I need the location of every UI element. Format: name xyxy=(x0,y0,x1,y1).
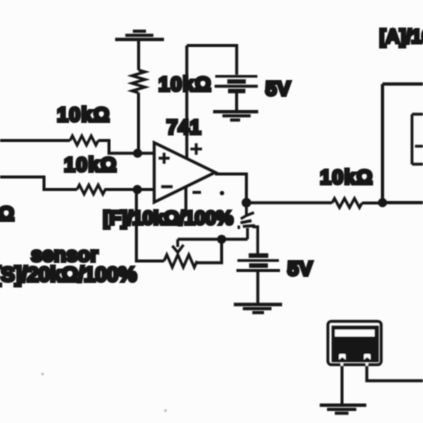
svg-text:10kΩ: 10kΩ xyxy=(159,74,212,96)
op-amp V- pin label xyxy=(193,191,202,194)
op-amp V+ pin wire xyxy=(185,46,188,159)
resistor R4 (vertical, to +input node) xyxy=(132,70,145,93)
meter M2 body xyxy=(328,321,381,364)
op-amp V+ pin label xyxy=(190,143,202,155)
resistor R2 xyxy=(77,185,105,194)
wire node E rail to arrow xyxy=(246,228,249,239)
wire V+ rail to battery B1 xyxy=(187,46,237,75)
svg-text:741: 741 xyxy=(167,117,202,139)
wire R1 to node A xyxy=(98,141,138,154)
wire node D to right edge (meter bottom) xyxy=(383,201,423,204)
op-amp U1 +input marker xyxy=(159,153,170,164)
meter M2 pin gap right xyxy=(366,363,369,366)
svg-text:5V: 5V xyxy=(288,259,314,281)
svg-text:[A]/10: [A]/10 xyxy=(380,27,423,48)
svg-text:5V: 5V xyxy=(266,79,292,101)
wire input 1 (from left edge) xyxy=(0,139,70,142)
node B junction dot xyxy=(133,185,142,194)
wiper track bar lower xyxy=(243,224,255,228)
wire M2 left terminal to GND4 xyxy=(341,366,344,404)
wire R3 to node D xyxy=(362,202,383,205)
wire R2 to node B xyxy=(104,188,137,191)
meter M2 pin gap left xyxy=(341,363,344,366)
output wire node C to R3 xyxy=(246,201,332,204)
resistor R3 xyxy=(332,198,362,207)
wire node B to op-amp -in xyxy=(137,188,154,191)
wire GND1 to R4 xyxy=(137,41,140,71)
meter M2 display strip xyxy=(335,330,375,337)
ground GND1 (top, inverted) xyxy=(115,31,164,39)
meter M2 left terminal mark xyxy=(339,354,346,360)
node D junction dot xyxy=(378,198,387,207)
ground GND3 (under B2) xyxy=(234,305,282,313)
feedback wire node B down to pot xyxy=(136,190,164,262)
resistor R1 xyxy=(70,136,98,145)
meter M2 dark face xyxy=(332,326,379,363)
wire wiper rail to node E xyxy=(178,238,248,241)
wire arrow to battery B2 xyxy=(253,227,258,255)
svg-text:[S]/20kΩ/100%: [S]/20kΩ/100% xyxy=(0,264,137,287)
node C junction dot xyxy=(242,198,252,208)
meter M1 display minus xyxy=(415,145,423,148)
op-amp output wire to node C xyxy=(215,174,246,203)
svg-text:10kΩ: 10kΩ xyxy=(57,105,110,127)
svg-text:0kΩ: 0kΩ xyxy=(0,204,15,226)
meter M1 box (clipped at right edge) xyxy=(383,84,423,203)
meter M1 inner display box xyxy=(412,114,423,164)
wiper track bar upper xyxy=(241,221,252,223)
op-amp U1 -input marker xyxy=(161,185,172,188)
op-amp U1 741 triangle xyxy=(154,143,215,203)
wire M2 right terminal to right edge xyxy=(367,366,423,381)
wire node A to op-amp +in xyxy=(138,152,155,155)
op-amp V- pin wire xyxy=(184,186,187,213)
potentiometer VR1 track xyxy=(164,255,197,268)
meter M2 right terminal mark xyxy=(364,354,371,360)
svg-text:10kΩ: 10kΩ xyxy=(320,167,373,189)
potentiometer VR1 wiper arrow xyxy=(172,239,183,253)
svg-text:[F]/10kΩ/100%: [F]/10kΩ/100% xyxy=(103,208,233,230)
svg-text:10kΩ: 10kΩ xyxy=(64,155,117,177)
stray dot near apex xyxy=(220,191,224,195)
node E junction dot xyxy=(217,235,226,244)
battery B2 5V (bottom) xyxy=(236,256,280,271)
wire B1 to GND2 xyxy=(235,93,238,111)
small tick below text xyxy=(238,226,241,230)
ground GND2 (under B1) xyxy=(213,112,258,120)
wire R4 to node A xyxy=(137,93,140,153)
wire B2 to GND3 xyxy=(256,272,259,304)
battery B1 5V (top) xyxy=(215,76,258,91)
node A junction dot xyxy=(133,149,142,158)
ground GND4 (under M2) xyxy=(320,405,367,413)
wiper arrow at output node C xyxy=(241,207,254,219)
wire VR1 right terminal up to node E xyxy=(197,239,222,262)
wire input 2 (from left edge) xyxy=(0,177,77,190)
